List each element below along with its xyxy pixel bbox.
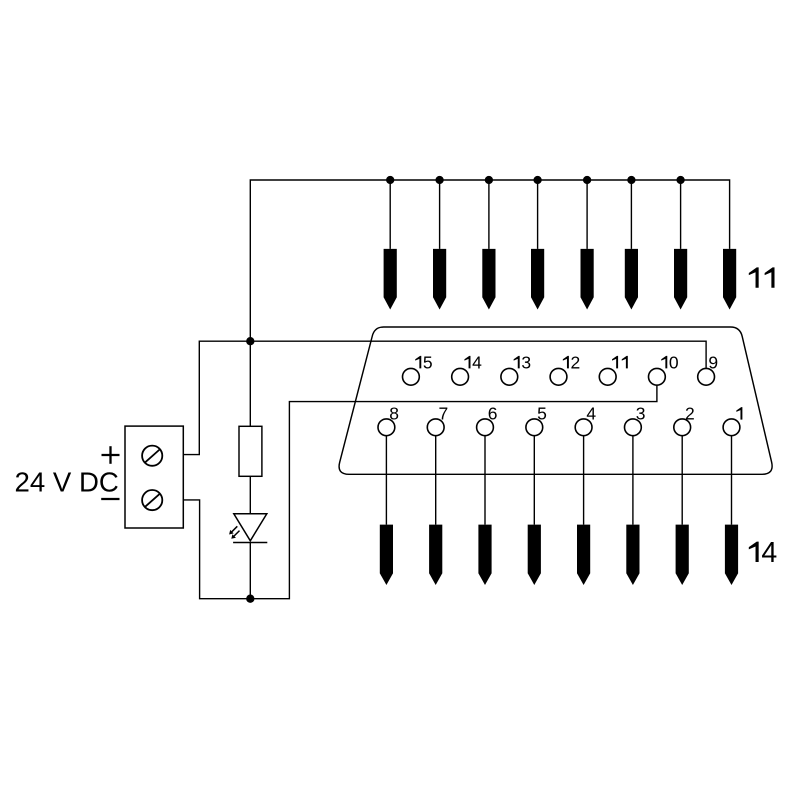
junction dot bus 5 bbox=[583, 176, 591, 184]
pin circle 11 bbox=[599, 368, 616, 385]
minus symbol bbox=[101, 498, 119, 500]
junction dot bus 3 bbox=[485, 176, 493, 184]
label terminal row 11 bbox=[749, 267, 775, 287]
LED D1 triangle bbox=[234, 514, 267, 541]
wire node A to resistor R1 bbox=[249, 341, 251, 426]
terminal arrow row11 pin5 bbox=[581, 249, 594, 310]
pin circle 13 bbox=[501, 368, 518, 385]
wire pin drop 3 bbox=[488, 180, 490, 249]
terminal arrow row14 pin4 bbox=[577, 525, 590, 585]
pin number 11 bbox=[612, 356, 618, 369]
svg-text:5: 5 bbox=[423, 352, 433, 372]
LED D1 light arrow 1 bbox=[232, 526, 237, 531]
connector D-SUB 15 outline U1 bbox=[339, 327, 772, 474]
junction node A bbox=[246, 337, 254, 345]
svg-text:4: 4 bbox=[761, 537, 777, 569]
terminal arrow row14 pin7 bbox=[429, 525, 442, 585]
wire pin drop 1 bbox=[389, 180, 391, 249]
junction dot bus 6 bbox=[627, 176, 635, 184]
junction dot bus 2 bbox=[435, 176, 443, 184]
pin circle 12 bbox=[550, 368, 567, 385]
terminal arrow row11 pin2 bbox=[433, 249, 446, 310]
svg-text:4: 4 bbox=[586, 404, 596, 424]
terminal arrow row11 pin6 bbox=[625, 249, 638, 310]
pin circle 5 bbox=[526, 419, 543, 436]
svg-text:3: 3 bbox=[521, 352, 531, 372]
pin circle 6 bbox=[477, 419, 494, 436]
terminal arrow row14 pin1 bbox=[725, 525, 738, 585]
terminal arrow row11 pin3 bbox=[482, 249, 495, 310]
junction dot bus 1 bbox=[386, 176, 394, 184]
wire LED D1 to minus rail bbox=[249, 543, 251, 599]
terminal arrow row11 pin1 bbox=[384, 249, 397, 310]
svg-text:7: 7 bbox=[439, 404, 449, 424]
terminal arrow row14 pin6 bbox=[478, 525, 491, 585]
plus symbol bbox=[102, 454, 120, 456]
wire pin 8 to arrow bbox=[385, 436, 387, 525]
wire resistor R1 to LED D1 bbox=[249, 476, 251, 514]
terminal arrow row11 pin8 bbox=[723, 249, 736, 310]
LED D1 light arrow 2 bbox=[234, 531, 239, 536]
wire minus rail to pin 10 bbox=[183, 386, 657, 599]
pin circle 10 bbox=[649, 368, 666, 385]
wire node A to pin 9 bbox=[183, 341, 706, 454]
wire top bus with left drop to node A bbox=[250, 180, 729, 341]
terminal arrow row14 pin8 bbox=[380, 525, 393, 585]
screw terminal plus bbox=[142, 446, 162, 466]
pin number 14 bbox=[464, 356, 470, 369]
svg-text:5: 5 bbox=[537, 404, 547, 424]
pin circle 4 bbox=[575, 419, 592, 436]
terminal arrow row14 pin5 bbox=[528, 525, 541, 585]
wire pin 2 to arrow bbox=[681, 436, 683, 525]
junction dot bus 4 bbox=[533, 176, 541, 184]
terminal arrow row11 pin7 bbox=[674, 249, 687, 310]
svg-text:6: 6 bbox=[488, 404, 498, 424]
svg-text:2: 2 bbox=[571, 352, 581, 372]
wire pin drop 5 bbox=[586, 180, 588, 249]
pin circle 8 bbox=[378, 419, 395, 436]
pin circle 14 bbox=[452, 368, 469, 385]
svg-text:24 V DC: 24 V DC bbox=[15, 466, 119, 497]
wire pin 4 to arrow bbox=[583, 436, 585, 525]
pin circle 7 bbox=[427, 419, 444, 436]
junction dot bus 7 bbox=[676, 176, 684, 184]
svg-text:3: 3 bbox=[636, 404, 646, 424]
svg-text:4: 4 bbox=[472, 352, 482, 372]
pin number 13 bbox=[514, 356, 520, 369]
pin number 12 bbox=[563, 356, 569, 369]
LED D1 cathode bar bbox=[233, 542, 267, 544]
wire pin 3 to arrow bbox=[632, 436, 634, 525]
resistor R1 bbox=[239, 426, 262, 476]
pin circle 15 bbox=[403, 368, 420, 385]
wire pin 7 to arrow bbox=[435, 436, 437, 525]
screw terminal minus bbox=[142, 490, 162, 510]
label terminal row 14 bbox=[749, 542, 759, 562]
wire pin 6 to arrow bbox=[484, 436, 486, 525]
pin circle 1 bbox=[723, 419, 740, 436]
pin number 15 bbox=[415, 356, 421, 369]
terminal arrow row11 pin4 bbox=[531, 249, 544, 310]
junction node B minus rail bbox=[246, 595, 254, 603]
terminal arrow row14 pin2 bbox=[676, 525, 689, 585]
pin circle 3 bbox=[625, 419, 642, 436]
wire pin 1 to arrow bbox=[731, 436, 733, 525]
svg-text:0: 0 bbox=[669, 352, 679, 372]
svg-text:8: 8 bbox=[389, 404, 399, 424]
wire pin 5 to arrow bbox=[533, 436, 535, 525]
pin number 1 bbox=[736, 407, 742, 420]
wire pin drop 4 bbox=[537, 180, 539, 249]
wire pin drop 7 bbox=[680, 180, 682, 249]
svg-text:9: 9 bbox=[708, 352, 718, 372]
pin circle 9 bbox=[698, 368, 715, 385]
terminal block X1 bbox=[125, 426, 183, 528]
wire pin drop 6 bbox=[630, 180, 632, 249]
svg-text:2: 2 bbox=[685, 404, 695, 424]
pin number 10 bbox=[661, 356, 667, 369]
terminal arrow row14 pin3 bbox=[626, 525, 639, 585]
wire pin drop 2 bbox=[439, 180, 441, 249]
pin circle 2 bbox=[674, 419, 691, 436]
